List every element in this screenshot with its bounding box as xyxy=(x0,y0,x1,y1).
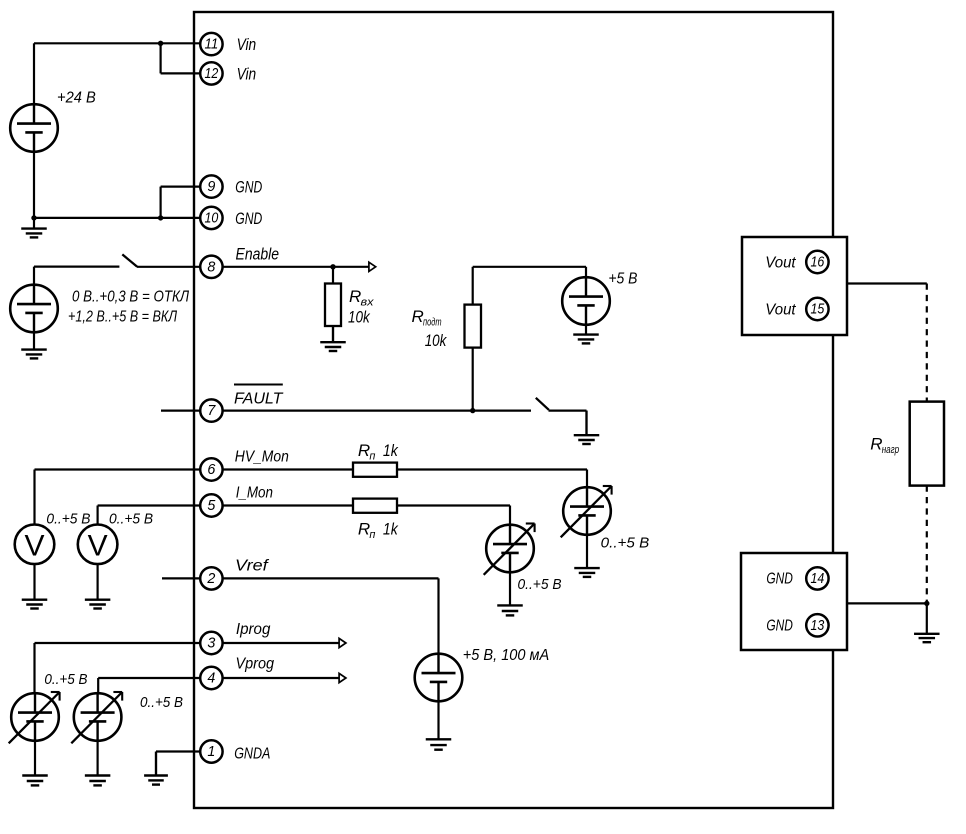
svg-text:16: 16 xyxy=(811,255,825,271)
pin 12 xyxy=(200,62,256,84)
svg-text:V: V xyxy=(24,530,44,563)
variable source G5 xyxy=(486,525,534,573)
label resistor Rvx xyxy=(349,287,374,309)
label G5 range xyxy=(518,576,562,593)
label GNDA xyxy=(234,746,270,763)
ground GND6 xyxy=(22,564,48,608)
svg-text:нагр: нагр xyxy=(882,444,900,456)
arrow G5 variable xyxy=(484,524,535,575)
svg-text:4: 4 xyxy=(207,671,215,687)
ground GND8 xyxy=(574,535,600,577)
svg-text:I_Mon: I_Mon xyxy=(236,485,273,502)
svg-text:0 В..+0,3 В = ОТКЛ: 0 В..+0,3 В = ОТКЛ xyxy=(72,289,189,306)
svg-text:V: V xyxy=(88,530,108,563)
svg-text:+5 В, 100 мА: +5 В, 100 мА xyxy=(463,647,549,664)
label Vref xyxy=(235,558,270,575)
wire enable stub right xyxy=(223,266,369,268)
voltage source G2 enable xyxy=(10,285,58,333)
junction node EN xyxy=(330,264,335,269)
wire +5V source lead xyxy=(585,267,587,278)
svg-text:R: R xyxy=(358,520,370,539)
label +24 В xyxy=(57,90,96,107)
resistor Rp2 body xyxy=(353,499,397,513)
pin 3 xyxy=(200,632,222,654)
label resistor Rload xyxy=(870,435,899,457)
arrow G4 variable xyxy=(561,486,612,537)
label PV1 range xyxy=(46,511,90,528)
svg-text:R: R xyxy=(870,435,882,454)
wire Vprog left xyxy=(98,678,199,693)
svg-text:15: 15 xyxy=(811,302,825,318)
label Vprog xyxy=(236,656,275,673)
label enable levels line1 xyxy=(72,289,189,306)
connector box GND xyxy=(741,553,847,650)
svg-text:0..+5 В: 0..+5 В xyxy=(601,535,650,552)
wire Rp2 to VS2 xyxy=(397,506,510,525)
svg-text:8: 8 xyxy=(207,259,215,275)
svg-text:Vout: Vout xyxy=(765,302,796,319)
wire pin12 link xyxy=(161,43,200,73)
svg-text:2: 2 xyxy=(206,571,215,587)
label G6 +5 В, 100 мА xyxy=(463,647,549,664)
wire Vout to load xyxy=(847,282,927,284)
svg-text:Iprog: Iprog xyxy=(236,621,271,638)
wire Rp1 to VS1 xyxy=(397,470,587,488)
pin 4 xyxy=(200,667,222,689)
svg-text:FAULT: FAULT xyxy=(234,391,284,408)
arrow G7 variable xyxy=(9,692,60,743)
svg-text:10k: 10k xyxy=(425,332,447,350)
wire enable to pin8 xyxy=(137,266,200,268)
ground GND9 xyxy=(497,573,523,616)
wire HV_Mon left xyxy=(35,470,200,525)
wire GNDA xyxy=(156,752,200,776)
ground GND2 xyxy=(21,332,47,358)
ground GND7 xyxy=(85,564,111,608)
svg-text:Vout: Vout xyxy=(765,255,796,272)
pin 16 Vout xyxy=(765,251,828,273)
pin 1 xyxy=(200,740,222,762)
svg-text:вх: вх xyxy=(361,297,375,309)
svg-text:п: п xyxy=(369,529,375,541)
resistor Rpodt body xyxy=(465,305,482,348)
variable source G7 xyxy=(11,693,59,741)
svg-text:Vin: Vin xyxy=(237,64,257,83)
arrow enable out xyxy=(369,262,376,271)
label G4 range xyxy=(601,535,650,552)
svg-text:+24 В: +24 В xyxy=(57,90,96,107)
svg-text:Vin: Vin xyxy=(237,35,257,54)
arrow Iprog out xyxy=(339,638,346,647)
svg-text:Vref: Vref xyxy=(235,558,270,575)
pin 11 xyxy=(200,33,256,55)
voltage source G6 +5V 100mA xyxy=(415,654,463,702)
label Rpodt value 10k xyxy=(425,332,447,350)
svg-text:12: 12 xyxy=(205,66,219,82)
ground GND10 xyxy=(426,701,452,749)
svg-text:10k: 10k xyxy=(348,309,370,327)
resistor Rload body xyxy=(910,402,944,486)
ground GND12 xyxy=(85,741,111,786)
wire I_Mon right xyxy=(223,504,353,506)
wire GND box to ground xyxy=(847,602,927,604)
arrow Vprog out xyxy=(339,673,346,682)
svg-text:9: 9 xyxy=(207,179,215,195)
svg-text:Enable: Enable xyxy=(236,245,280,264)
IC block U1 outline xyxy=(194,12,833,808)
svg-text:0..+5 В: 0..+5 В xyxy=(46,511,90,528)
pin 13 GND xyxy=(766,614,828,636)
wire Rvx to ground xyxy=(332,326,334,342)
svg-text:GNDA: GNDA xyxy=(234,746,270,763)
voltmeter PV2 xyxy=(78,525,118,565)
svg-text:GND: GND xyxy=(235,178,262,197)
svg-text:0..+5 В: 0..+5 В xyxy=(109,511,153,528)
label resistor Rp1 1k xyxy=(358,441,399,463)
label Rvx value 10k xyxy=(348,309,370,327)
resistor Rp1 body xyxy=(353,463,397,477)
svg-text:11: 11 xyxy=(205,37,219,53)
pin 6 xyxy=(200,458,222,480)
svg-text:6: 6 xyxy=(207,462,215,478)
svg-text:0..+5 В: 0..+5 В xyxy=(44,671,87,688)
wire Vin top rail xyxy=(34,43,200,104)
ground GND11 xyxy=(22,741,48,786)
svg-text:13: 13 xyxy=(811,618,825,634)
wire FAULT stub left xyxy=(161,410,200,412)
wire pullup top rail xyxy=(473,267,586,305)
wire Rpodt to FAULT xyxy=(472,348,474,411)
junction node GND a xyxy=(31,215,36,220)
voltage source G3 +5 B xyxy=(562,277,610,325)
svg-text:7: 7 xyxy=(207,403,216,419)
ground GND14 xyxy=(914,603,940,642)
wire HV_Mon right xyxy=(223,468,353,470)
svg-text:1k: 1k xyxy=(383,442,399,460)
switch S1 blade xyxy=(122,254,137,266)
wire dashed load bottom xyxy=(926,486,928,604)
pin 5 xyxy=(200,494,222,516)
label resistor Rp2 1k xyxy=(358,520,399,542)
svg-text:HV_Mon: HV_Mon xyxy=(235,449,289,466)
wire Rvx riser xyxy=(332,267,334,284)
wire FAULT line xyxy=(223,410,531,412)
pin 14 GND xyxy=(766,567,828,589)
voltmeter PV1 xyxy=(15,525,55,565)
wire dashed load top xyxy=(926,284,928,402)
label HV_Mon xyxy=(235,449,289,466)
wire Vprog right xyxy=(223,677,340,679)
pin 8 xyxy=(200,245,279,279)
voltage source G1 +24 B xyxy=(10,104,58,152)
ground GND1 xyxy=(21,218,47,238)
wire Vref stub left xyxy=(162,577,200,579)
junction node FAULT-R xyxy=(470,408,475,413)
wire Iprog left xyxy=(35,643,200,693)
svg-text:1: 1 xyxy=(207,744,215,760)
svg-text:R: R xyxy=(412,307,424,326)
svg-text:0..+5 В: 0..+5 В xyxy=(140,694,183,711)
arrow G8 variable xyxy=(71,692,122,743)
junction node GND b xyxy=(158,215,163,220)
variable source G4 xyxy=(563,487,611,535)
svg-text:GND: GND xyxy=(766,571,793,588)
svg-text:Vprog: Vprog xyxy=(236,656,275,673)
variable source G8 xyxy=(74,693,122,741)
svg-text:R: R xyxy=(349,287,361,306)
ground GND13 xyxy=(144,752,168,785)
svg-text:5: 5 xyxy=(207,498,215,514)
pin 2 xyxy=(200,567,222,589)
label G8 range xyxy=(140,694,183,711)
svg-text:GND: GND xyxy=(766,618,793,635)
wire Vref right xyxy=(223,578,439,653)
svg-text:подт: подт xyxy=(423,317,442,329)
label PV2 range xyxy=(109,511,153,528)
svg-text:0..+5 В: 0..+5 В xyxy=(518,576,562,593)
pin 7 xyxy=(200,399,222,421)
switch S2 blade xyxy=(536,398,549,410)
ground GND5 xyxy=(574,411,600,444)
connector box Vout xyxy=(742,237,847,335)
svg-text:10: 10 xyxy=(205,211,219,227)
label I_Mon xyxy=(236,485,273,502)
label resistor Rpodt xyxy=(412,307,442,329)
ground GND4 xyxy=(573,325,599,344)
junction node Vin xyxy=(158,41,163,46)
label G7 range xyxy=(44,671,87,688)
junction node load gnd xyxy=(924,601,929,606)
wire pin9 link xyxy=(161,187,200,218)
svg-text:3: 3 xyxy=(207,636,215,652)
ground GND3 xyxy=(320,326,346,351)
label enable levels line2 xyxy=(68,309,177,326)
resistor Rvx body xyxy=(325,284,341,327)
wire I_Mon left xyxy=(98,506,200,525)
wire enable from source xyxy=(34,267,119,285)
label +5 В xyxy=(608,271,637,288)
pin 15 Vout xyxy=(765,298,828,320)
label Iprog xyxy=(236,621,271,638)
svg-text:+1,2 В..+5 В = ВКЛ: +1,2 В..+5 В = ВКЛ xyxy=(68,309,177,326)
wire FAULT sw right xyxy=(549,411,587,435)
label FAULT xyxy=(234,385,284,408)
pin 9 xyxy=(200,175,262,197)
wire Iprog right xyxy=(223,642,340,644)
svg-text:GND: GND xyxy=(235,209,262,228)
svg-text:1k: 1k xyxy=(383,521,399,539)
svg-text:R: R xyxy=(358,441,370,460)
wire GND rail xyxy=(34,152,200,218)
svg-text:+5 В: +5 В xyxy=(608,271,637,288)
svg-text:14: 14 xyxy=(811,571,825,587)
pin 10 xyxy=(200,207,262,229)
svg-text:п: п xyxy=(369,451,375,463)
